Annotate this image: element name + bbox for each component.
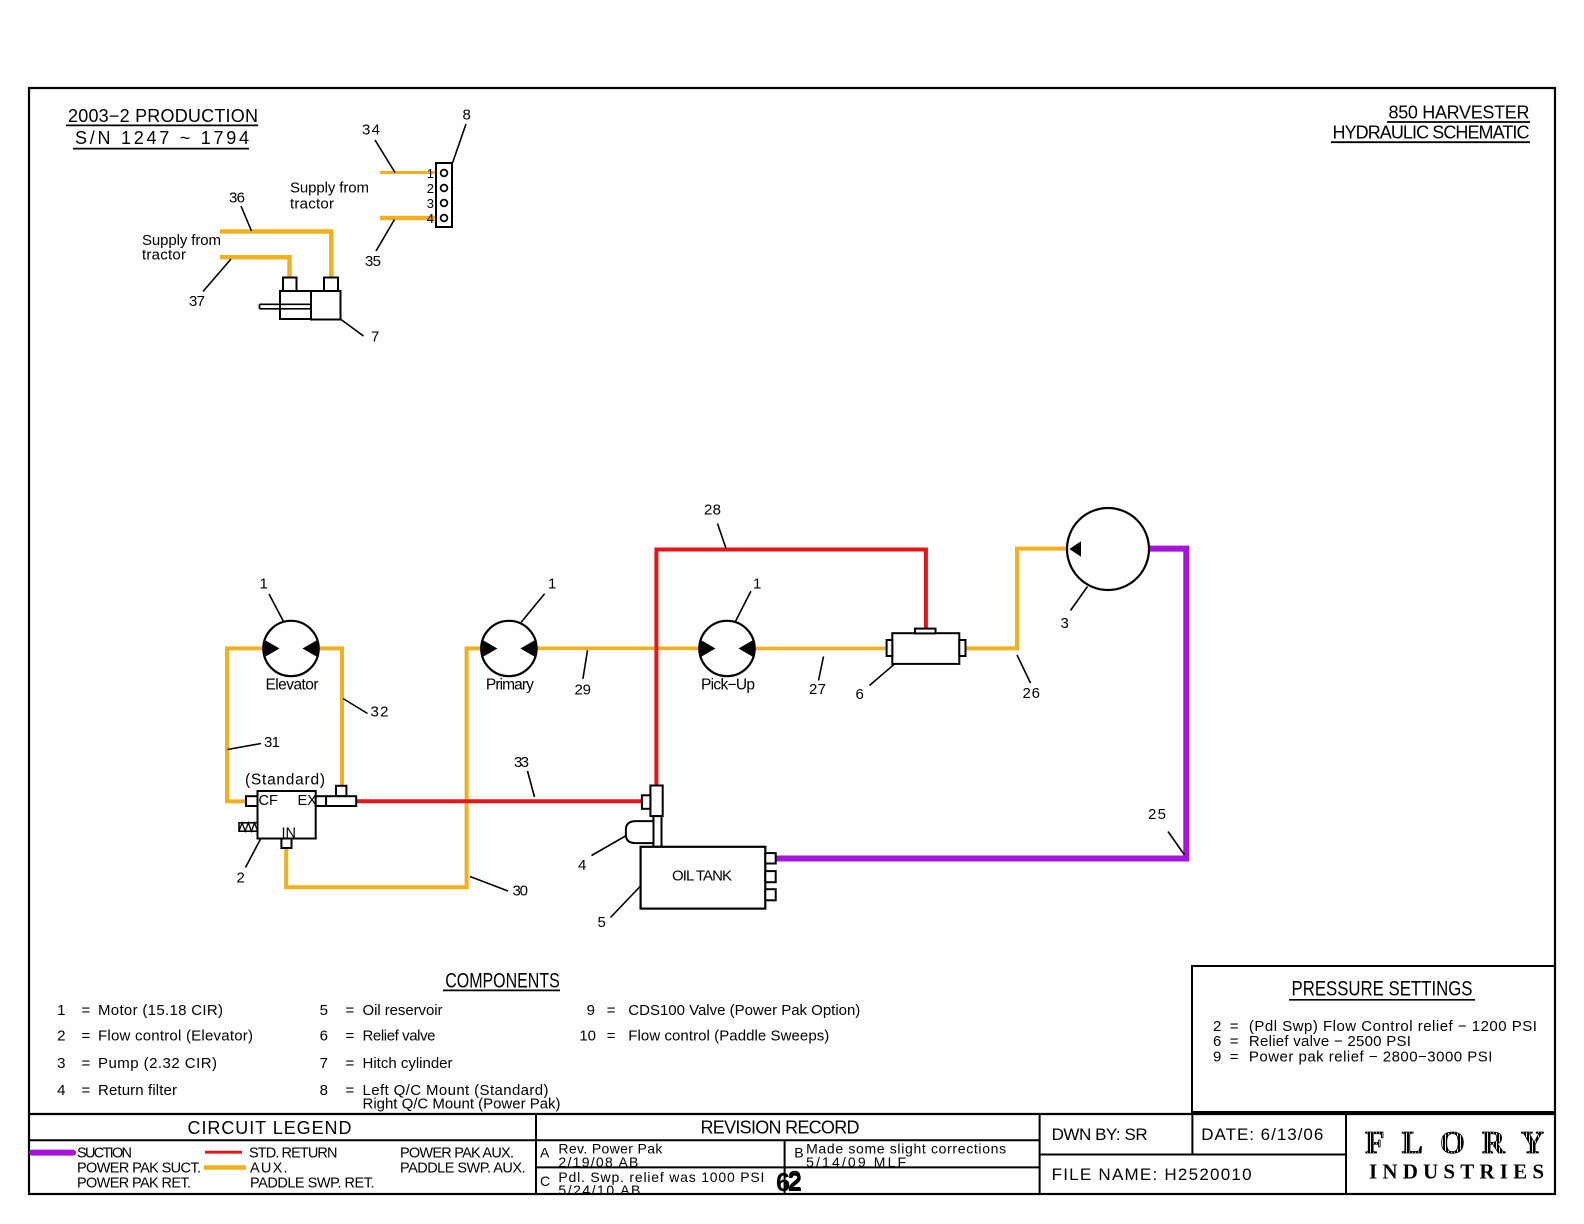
svg-text:28: 28 — [704, 501, 721, 518]
svg-text:C: C — [540, 1173, 550, 1189]
svg-text:tractor: tractor — [290, 195, 334, 212]
svg-text:Flow control (Paddle Sweeps: Flow control (Paddle Sweeps) — [628, 1028, 829, 1045]
svg-text:2: 2 — [427, 181, 434, 196]
svg-text:25: 25 — [1148, 806, 1166, 823]
svg-text:Pump (2.32 CIR): Pump (2.32 CIR) — [98, 1055, 217, 1072]
svg-text:37: 37 — [189, 293, 205, 310]
svg-text:Supply from: Supply from — [290, 179, 369, 196]
svg-text:CF: CF — [259, 793, 278, 809]
svg-text:6: 6 — [856, 686, 864, 703]
svg-text:=: = — [607, 1028, 616, 1045]
svg-text:Oil reservoir: Oil reservoir — [363, 1002, 443, 1019]
svg-text:DATE: 6/13/06: DATE: 6/13/06 — [1201, 1125, 1323, 1144]
svg-text:4: 4 — [427, 211, 434, 226]
svg-text:PADDLE SWP. AUX.: PADDLE SWP. AUX. — [400, 1160, 526, 1176]
svg-text:OIL TANK: OIL TANK — [672, 868, 732, 885]
svg-text:4: 4 — [578, 857, 586, 874]
svg-text:=: = — [82, 1055, 91, 1072]
svg-text:A: A — [540, 1145, 550, 1161]
svg-text:7: 7 — [320, 1055, 328, 1072]
svg-text:PADDLE SWP. RET.: PADDLE SWP. RET. — [250, 1175, 375, 1191]
svg-text:HYDRAULIC SCHEMATIC: HYDRAULIC SCHEMATIC — [1333, 123, 1530, 143]
svg-text:Hitch cylinder: Hitch cylinder — [363, 1055, 453, 1072]
svg-text:2: 2 — [788, 1167, 802, 1195]
svg-text:CDS100 Valve (Power Pak Op: CDS100 Valve (Power Pak Option) — [628, 1002, 860, 1019]
svg-text:STD. RETURN: STD. RETURN — [249, 1145, 338, 1161]
svg-text:8: 8 — [463, 106, 471, 123]
svg-text:1: 1 — [753, 576, 761, 593]
svg-text:2: 2 — [57, 1028, 65, 1045]
svg-text:=: = — [346, 1055, 355, 1072]
svg-text:(Standard): (Standard) — [245, 772, 325, 789]
svg-text:SUCTION: SUCTION — [77, 1145, 132, 1161]
svg-text:2: 2 — [237, 870, 245, 887]
svg-text:POWER PAK RET.: POWER PAK RET. — [77, 1175, 191, 1191]
svg-text:9: 9 — [587, 1002, 595, 1019]
svg-text:PRESSURE SETTINGS: PRESSURE SETTINGS — [1292, 977, 1473, 1000]
svg-text:CIRCUIT LEGEND: CIRCUIT LEGEND — [188, 1118, 352, 1138]
svg-text:33: 33 — [514, 754, 529, 771]
svg-text:=: = — [607, 1002, 616, 1019]
svg-text:6: 6 — [320, 1028, 328, 1045]
svg-text:Flow control (Elevator): Flow control (Elevator) — [98, 1028, 253, 1045]
svg-text:Return filter: Return filter — [98, 1082, 177, 1099]
svg-text:EX: EX — [298, 793, 318, 809]
svg-text:POWER PAK SUCT.: POWER PAK SUCT. — [77, 1160, 201, 1176]
svg-text:2/19/08 AB: 2/19/08 AB — [558, 1154, 638, 1170]
svg-text:=: = — [1230, 1049, 1239, 1066]
svg-text:=: = — [82, 1028, 91, 1045]
svg-text:=: = — [82, 1002, 91, 1019]
svg-text:=: = — [82, 1082, 91, 1099]
svg-text:35: 35 — [365, 253, 381, 270]
svg-text:4: 4 — [57, 1082, 65, 1099]
svg-text:DWN BY: SR: DWN BY: SR — [1052, 1125, 1148, 1144]
svg-text:=: = — [346, 1082, 355, 1099]
svg-text:34: 34 — [362, 122, 380, 139]
svg-text:=: = — [346, 1028, 355, 1045]
svg-text:=: = — [346, 1002, 355, 1019]
svg-text:REVISION RECORD: REVISION RECORD — [701, 1118, 860, 1138]
svg-text:5/24/10 AB: 5/24/10 AB — [558, 1182, 640, 1198]
svg-text:AUX.: AUX. — [250, 1160, 288, 1176]
svg-text:30: 30 — [513, 883, 529, 900]
svg-text:COMPONENTS: COMPONENTS — [445, 969, 560, 992]
svg-text:8: 8 — [320, 1082, 328, 1099]
svg-text:1: 1 — [57, 1002, 65, 1019]
svg-text:3: 3 — [1061, 615, 1069, 632]
svg-text:2003−2 PRODUCTION: 2003−2 PRODUCTION — [68, 106, 258, 126]
svg-text:32: 32 — [371, 703, 389, 720]
svg-text:1: 1 — [548, 576, 556, 593]
svg-text:IN: IN — [282, 826, 297, 842]
svg-text:36: 36 — [229, 189, 245, 206]
svg-text:7: 7 — [371, 328, 379, 345]
svg-text:1: 1 — [260, 576, 268, 593]
svg-text:5: 5 — [320, 1002, 328, 1019]
svg-text:5: 5 — [598, 914, 606, 931]
svg-text:Elevator: Elevator — [266, 676, 319, 693]
svg-text:31: 31 — [264, 734, 280, 751]
svg-text:Pick−Up: Pick−Up — [701, 676, 755, 693]
svg-text:Right Q/C Mount (Power Pak: Right Q/C Mount (Power Pak) — [363, 1095, 561, 1112]
svg-text:9: 9 — [1213, 1049, 1221, 1066]
svg-text:10: 10 — [579, 1028, 596, 1045]
svg-text:1: 1 — [427, 166, 434, 181]
svg-text:Power pak relief − 2800−30: Power pak relief − 2800−3000 PSI — [1249, 1049, 1493, 1066]
svg-text:27: 27 — [809, 681, 826, 698]
svg-text:26: 26 — [1023, 685, 1041, 702]
svg-text:FILE NAME: H2520010: FILE NAME: H2520010 — [1052, 1165, 1252, 1184]
svg-text:29: 29 — [575, 682, 592, 699]
svg-text:850 HARVESTER: 850 HARVESTER — [1389, 103, 1530, 123]
svg-text:3: 3 — [427, 196, 434, 211]
svg-text:tractor: tractor — [142, 246, 186, 263]
svg-text:Primary: Primary — [486, 676, 534, 693]
svg-text:Relief valve: Relief valve — [363, 1028, 436, 1045]
svg-text:POWER PAK AUX.: POWER PAK AUX. — [400, 1145, 514, 1161]
svg-text:3: 3 — [57, 1055, 65, 1072]
svg-text:Motor (15.18 CIR): Motor (15.18 CIR) — [98, 1002, 223, 1019]
svg-text:S/N 1247 ~ 1794: S/N 1247 ~ 1794 — [75, 128, 249, 148]
svg-text:B: B — [794, 1145, 803, 1161]
